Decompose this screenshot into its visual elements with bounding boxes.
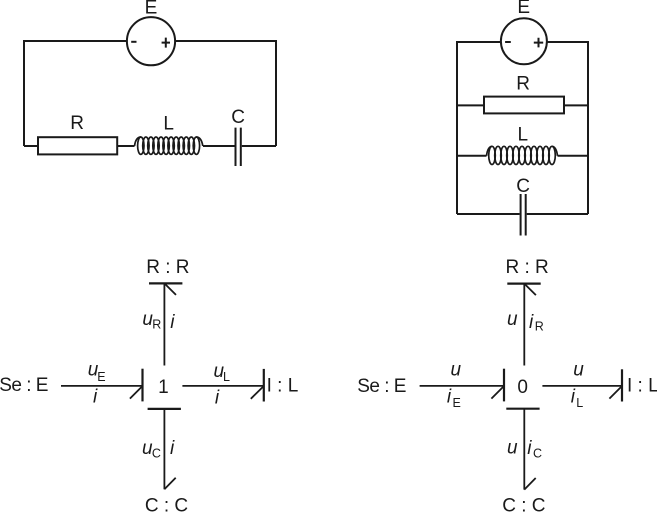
svg-text:i: i — [529, 312, 534, 333]
svg-text:L: L — [576, 396, 583, 410]
svg-text:R : R: R : R — [146, 257, 189, 278]
svg-text:E: E — [453, 396, 461, 410]
svg-text:u: u — [507, 437, 518, 458]
svg-text:i: i — [447, 387, 452, 408]
svg-text:C: C — [231, 107, 245, 128]
svg-text:C : C: C : C — [502, 495, 545, 512]
svg-text:C: C — [533, 447, 542, 461]
svg-text:i: i — [170, 312, 175, 333]
svg-text:R : R: R : R — [505, 257, 548, 278]
svg-text:i: i — [527, 438, 532, 459]
svg-text:C : C: C : C — [145, 495, 188, 512]
svg-text:L: L — [223, 370, 230, 384]
svg-text:L: L — [518, 125, 529, 146]
svg-text:I : L: I : L — [267, 376, 299, 397]
svg-text:C: C — [516, 176, 530, 197]
svg-text:i: i — [571, 387, 576, 408]
svg-text:R: R — [70, 113, 84, 134]
svg-text:u: u — [507, 309, 518, 330]
svg-text:E: E — [97, 370, 105, 384]
svg-text:i: i — [93, 387, 98, 408]
svg-text:u: u — [573, 360, 584, 381]
svg-text:C: C — [152, 446, 161, 460]
svg-text:1: 1 — [158, 377, 169, 398]
svg-text:0: 0 — [517, 377, 528, 398]
svg-text:u: u — [451, 360, 462, 381]
svg-text:E: E — [145, 0, 158, 18]
svg-text:Se : E: Se : E — [357, 376, 406, 397]
svg-text:R: R — [152, 317, 161, 331]
svg-text:R: R — [535, 320, 544, 334]
svg-text:i: i — [170, 438, 175, 459]
svg-text:E: E — [517, 0, 530, 18]
svg-text:L: L — [163, 114, 174, 135]
svg-text:R: R — [516, 73, 530, 94]
svg-text:i: i — [215, 388, 220, 409]
svg-text:I : L: I : L — [627, 376, 657, 397]
svg-text:Se : E: Se : E — [0, 375, 48, 396]
